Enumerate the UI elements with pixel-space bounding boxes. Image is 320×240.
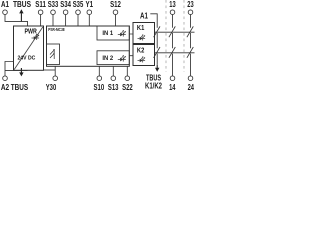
svg-text:TBUS: TBUS	[13, 0, 31, 9]
svg-text:S33: S33	[48, 0, 59, 9]
svg-text:IN 2: IN 2	[102, 55, 113, 62]
svg-text:Y30: Y30	[46, 82, 57, 92]
svg-text:K1/K2: K1/K2	[145, 80, 162, 90]
svg-text:PSR-MC38: PSR-MC38	[48, 27, 65, 32]
svg-text:S13: S13	[108, 82, 119, 92]
svg-text:S12: S12	[110, 0, 121, 9]
svg-text:S11: S11	[35, 0, 46, 9]
svg-text:S10: S10	[94, 82, 105, 92]
svg-text:A1: A1	[1, 0, 9, 9]
svg-text:A2: A2	[1, 82, 10, 92]
svg-text:K2: K2	[137, 47, 144, 54]
svg-text:TBUS: TBUS	[11, 82, 29, 92]
svg-text:23: 23	[187, 0, 194, 9]
svg-text:IN 1: IN 1	[102, 30, 113, 37]
svg-text:A1: A1	[140, 12, 148, 21]
svg-text:13: 13	[169, 0, 176, 9]
svg-text:S34: S34	[60, 0, 71, 9]
svg-text:K1: K1	[137, 25, 144, 32]
svg-text:24V DC: 24V DC	[17, 55, 36, 61]
svg-text:24: 24	[188, 82, 195, 92]
svg-text:S35: S35	[73, 0, 84, 9]
svg-text:Y1: Y1	[86, 0, 94, 9]
svg-text:PWR: PWR	[25, 29, 37, 36]
svg-text:14: 14	[169, 82, 176, 92]
svg-text:S22: S22	[122, 82, 133, 92]
